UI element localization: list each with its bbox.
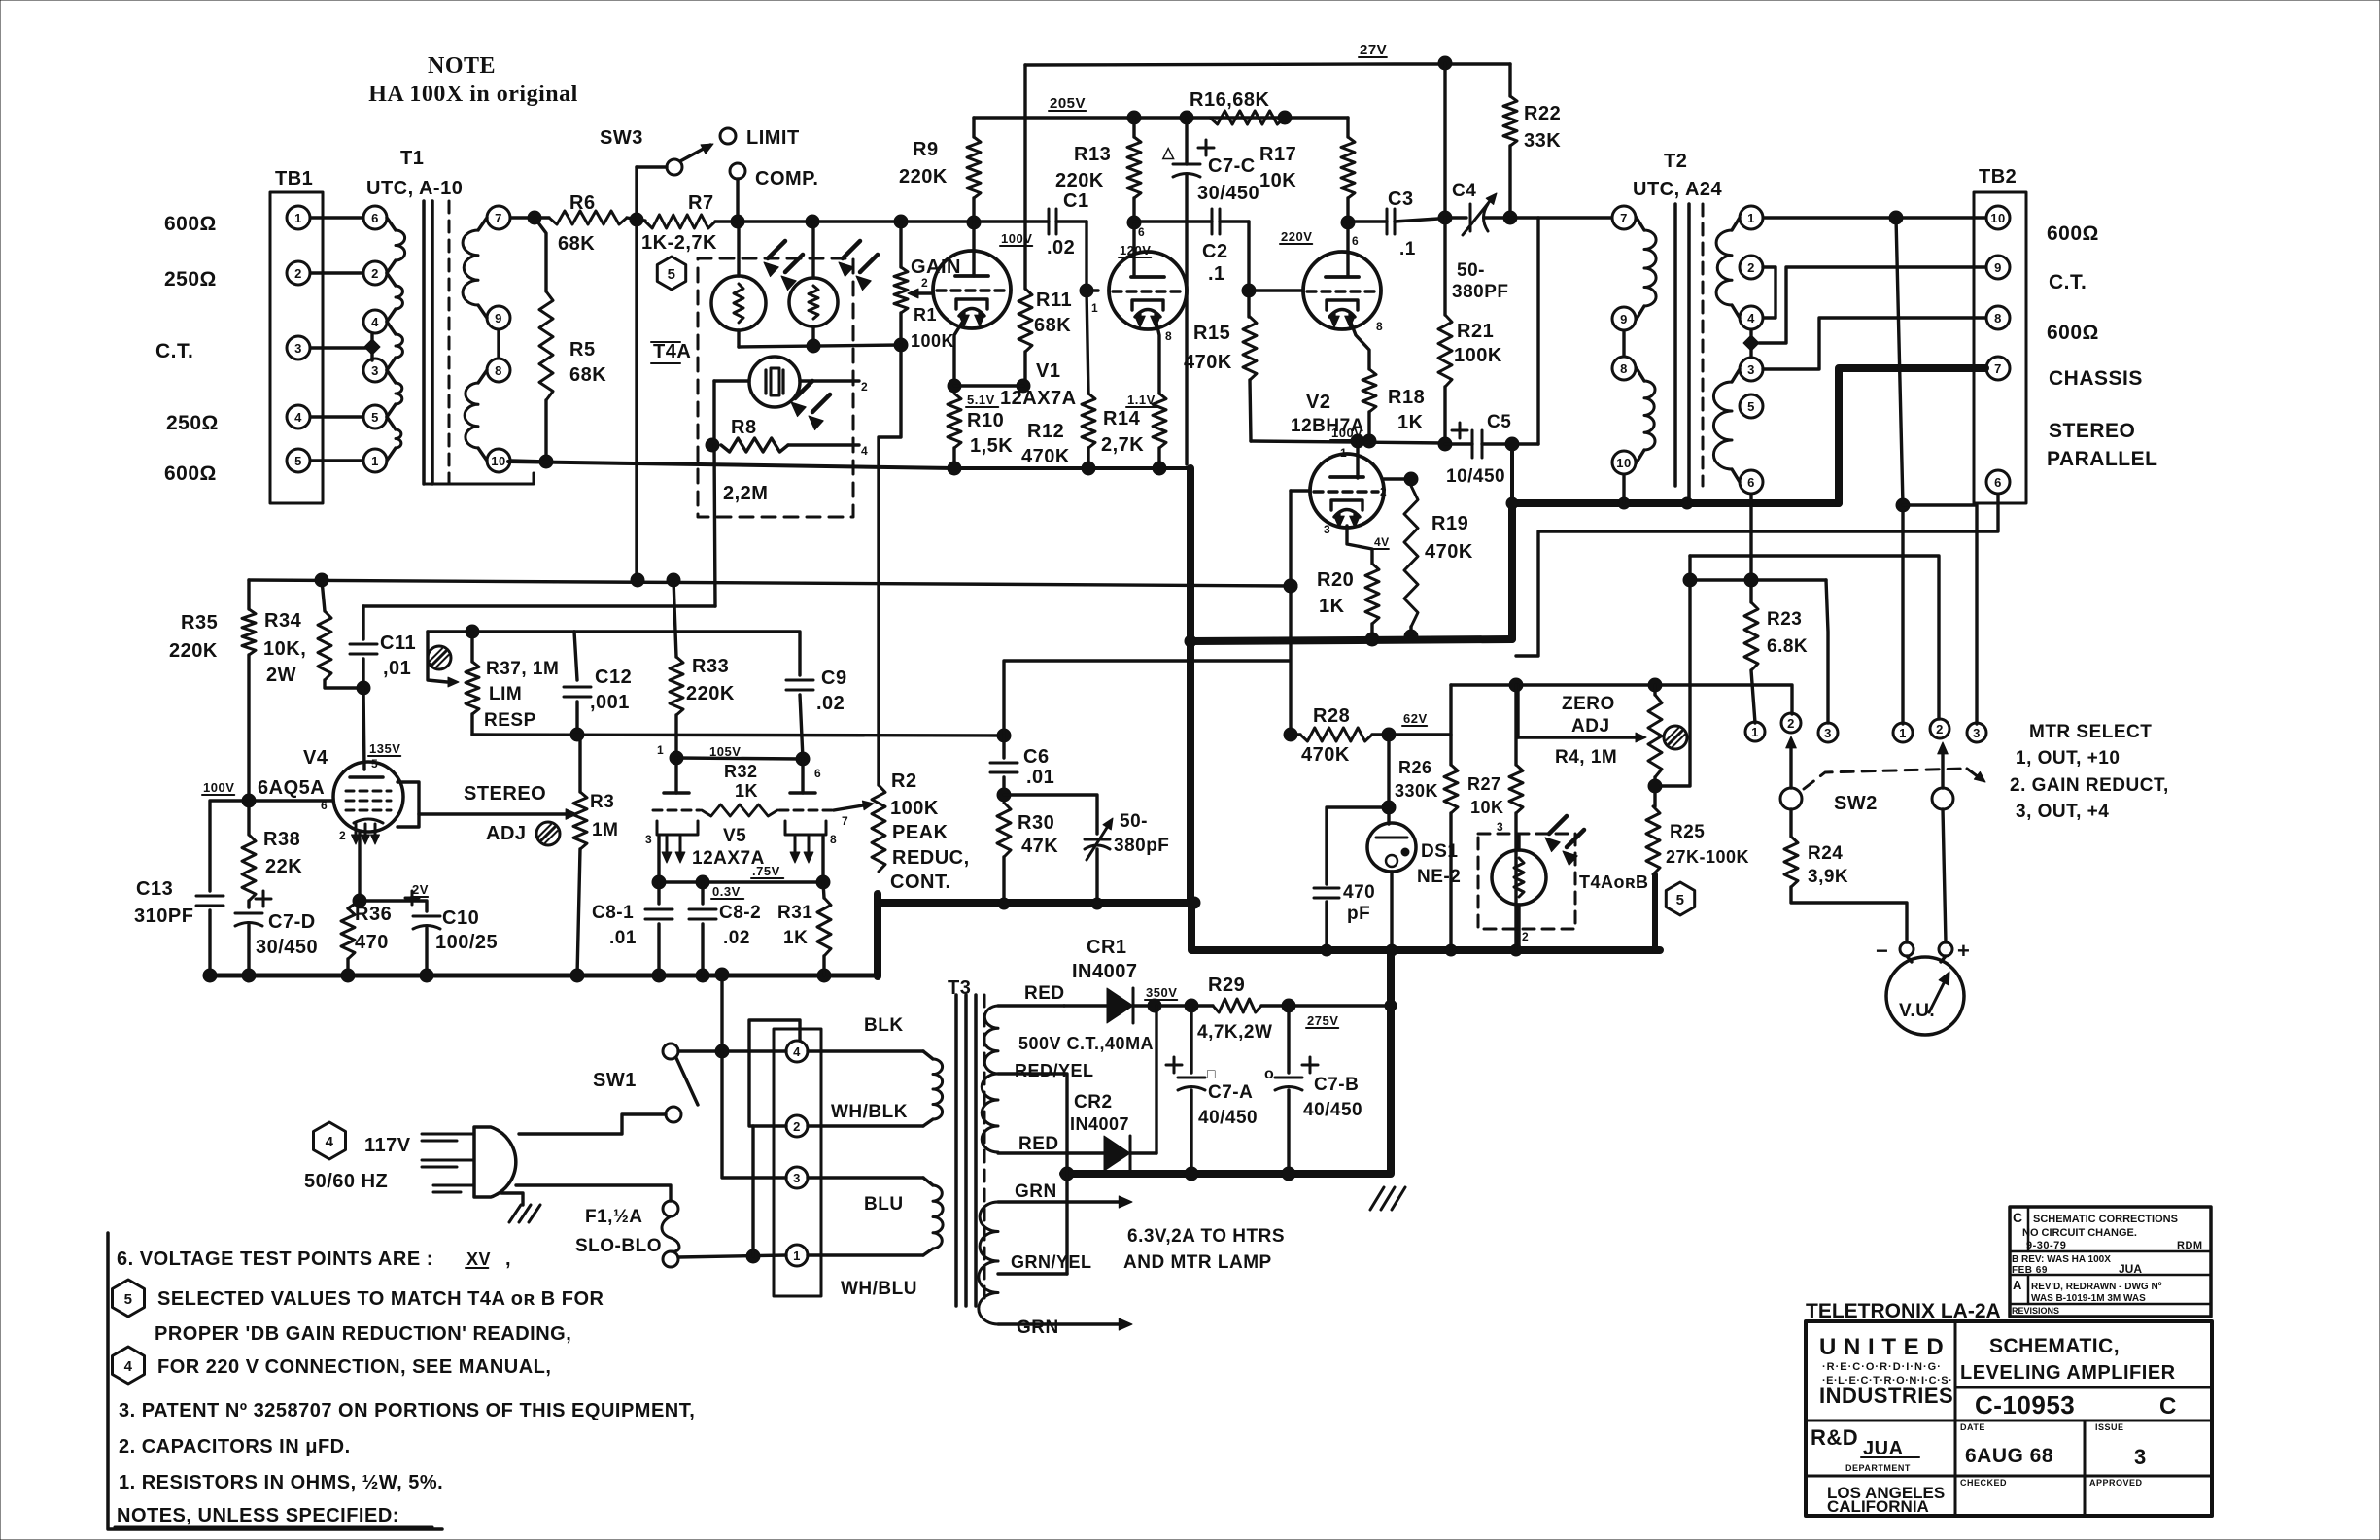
svg-text:135V: 135V bbox=[369, 741, 400, 756]
svg-text:V5: V5 bbox=[723, 826, 746, 846]
svg-text:50-: 50- bbox=[1457, 260, 1485, 281]
svg-text:ADJ: ADJ bbox=[1571, 716, 1610, 736]
svg-text:3. PATENT Nº 3258707 ON PORTI: 3. PATENT Nº 3258707 ON PORTIONS OF THIS… bbox=[119, 1400, 695, 1421]
wire 105V line bbox=[472, 735, 1004, 736]
capacitor C7-B 40/450 bbox=[1287, 1006, 1290, 1073]
variable capacitor 50-380pF bbox=[1004, 795, 1097, 834]
node R6/R7 junction bbox=[627, 218, 645, 221]
wire V5 to R2 wiper bbox=[834, 804, 869, 810]
note hex 4 bbox=[113, 1347, 145, 1384]
svg-text:470K: 470K bbox=[1425, 541, 1473, 563]
svg-text:C2: C2 bbox=[1202, 241, 1228, 262]
resistor R19 470K bbox=[1404, 486, 1418, 627]
cathode bus V5 bbox=[659, 837, 823, 882]
capacitor C8-2 .02 bbox=[701, 882, 704, 904]
chassis ground symbol bbox=[1370, 1187, 1384, 1210]
resistor R23 6.8K bbox=[1744, 573, 1758, 587]
svg-text:1: 1 bbox=[294, 211, 302, 225]
svg-text:2. GAIN REDUCT,: 2. GAIN REDUCT, bbox=[2010, 775, 2169, 796]
svg-text:40/450: 40/450 bbox=[1198, 1108, 1258, 1128]
lamp of T4A bbox=[749, 357, 800, 407]
wire TB3-2 jumper bbox=[749, 1020, 800, 1126]
svg-text:4: 4 bbox=[861, 444, 868, 458]
resistor R36 470 bbox=[341, 908, 355, 959]
svg-text:6. VOLTAGE TEST POINTS ARE :: 6. VOLTAGE TEST POINTS ARE : bbox=[117, 1249, 433, 1270]
svg-text:7: 7 bbox=[1620, 211, 1628, 225]
svg-text:C-10953: C-10953 bbox=[1975, 1390, 2075, 1420]
svg-text:600Ω: 600Ω bbox=[164, 462, 217, 485]
svg-text:10K: 10K bbox=[1470, 798, 1504, 817]
transformer T2 secondary windings bbox=[1732, 218, 1740, 230]
transformer T1 core bbox=[422, 201, 426, 484]
svg-text:1. RESISTORS IN OHMS, ½W, 5%.: 1. RESISTORS IN OHMS, ½W, 5%. bbox=[119, 1472, 443, 1493]
transformer T1 frame lead bbox=[424, 473, 534, 484]
svg-text:117V: 117V bbox=[364, 1135, 411, 1156]
svg-text:BLU: BLU bbox=[864, 1194, 904, 1215]
svg-text:3: 3 bbox=[1747, 362, 1755, 377]
chassis ground at plug bbox=[509, 1205, 521, 1222]
svg-text:5: 5 bbox=[668, 266, 676, 283]
svg-text:C1: C1 bbox=[1063, 190, 1089, 212]
svg-text:JUA: JUA bbox=[1863, 1438, 1904, 1459]
thick power ground bus bbox=[1063, 950, 1391, 1174]
svg-text:DEPARTMENT: DEPARTMENT bbox=[1845, 1463, 1911, 1473]
wire meter select 3 line bbox=[1903, 505, 1977, 724]
transformer T1 secondary terminals bbox=[487, 206, 510, 229]
svg-text:R9: R9 bbox=[913, 139, 939, 160]
svg-text:3: 3 bbox=[1324, 523, 1330, 536]
wire junction down left column bbox=[635, 220, 638, 580]
capacitor C6 .01 bbox=[1002, 736, 1005, 758]
revisions box bbox=[2010, 1207, 2211, 1317]
svg-text:BLK: BLK bbox=[864, 1015, 904, 1036]
switch SW3 pivot and arm bbox=[635, 167, 638, 220]
svg-text:C6: C6 bbox=[1023, 746, 1050, 768]
svg-text:SW1: SW1 bbox=[593, 1070, 637, 1091]
switch SW3 LIMIT contact bbox=[720, 128, 736, 144]
svg-text:C7-D: C7-D bbox=[268, 911, 316, 933]
wire R23 top to R25 chain bbox=[1690, 578, 1826, 581]
switch SW2 right common bbox=[1932, 788, 1953, 809]
capacitor C8-1 .01 bbox=[657, 882, 660, 904]
svg-text:1K: 1K bbox=[1397, 412, 1424, 433]
photocell LDR2 of T4A bbox=[811, 222, 814, 278]
svg-text:R15: R15 bbox=[1193, 323, 1230, 344]
svg-text:30/450: 30/450 bbox=[1197, 183, 1259, 204]
fuse F1 half amp slo-blo bbox=[663, 1201, 678, 1216]
wire GRN/YEL tap bbox=[998, 1272, 1067, 1275]
svg-text:□: □ bbox=[1207, 1066, 1216, 1081]
svg-text:7: 7 bbox=[1994, 361, 2002, 376]
transformer T3 primary windings bbox=[808, 1049, 923, 1052]
svg-text:9: 9 bbox=[1994, 260, 2002, 275]
svg-text:22K: 22K bbox=[265, 856, 302, 877]
svg-text:C8-2: C8-2 bbox=[719, 903, 761, 923]
photocell LDR1 of T4A bbox=[737, 222, 740, 276]
svg-text:CALIFORNIA: CALIFORNIA bbox=[1827, 1497, 1929, 1516]
svg-text:NO CIRCUIT CHANGE.: NO CIRCUIT CHANGE. bbox=[2022, 1227, 2137, 1239]
resistor R7 1K-2.7K bbox=[645, 215, 715, 228]
transformer T2 secondary terminals bbox=[1740, 206, 1763, 229]
svg-text:68K: 68K bbox=[558, 233, 595, 255]
svg-text:R38: R38 bbox=[263, 829, 300, 850]
svg-text:MTR SELECT: MTR SELECT bbox=[2029, 722, 2152, 742]
svg-text:△: △ bbox=[1161, 145, 1175, 161]
svg-text:GRN: GRN bbox=[1015, 1181, 1057, 1202]
cathode wire V1a bbox=[954, 323, 962, 386]
svg-text:10: 10 bbox=[1616, 456, 1631, 470]
wire COMP contact down to node bbox=[736, 179, 739, 222]
svg-text:FOR 220 V CONNECTION, SEE MANU: FOR 220 V CONNECTION, SEE MANUAL, bbox=[157, 1356, 551, 1378]
svg-text:RED/YEL: RED/YEL bbox=[1015, 1061, 1094, 1080]
diode CR2 bbox=[1104, 1136, 1130, 1171]
svg-text:TB2: TB2 bbox=[1979, 166, 2017, 188]
wire center tap to TB2-9 bbox=[1759, 267, 1985, 343]
svg-text:C7-A: C7-A bbox=[1208, 1082, 1253, 1103]
svg-text:REVISIONS: REVISIONS bbox=[2012, 1306, 2059, 1316]
svg-text:8: 8 bbox=[1994, 311, 2002, 325]
svg-text:6AQ5A: 6AQ5A bbox=[258, 777, 325, 799]
svg-text:SCHEMATIC,: SCHEMATIC, bbox=[1989, 1335, 2120, 1357]
svg-text:R14: R14 bbox=[1103, 408, 1141, 429]
triode V1a 12AX7A bbox=[933, 251, 1011, 328]
wire CR2 up to node bbox=[1155, 1006, 1157, 1153]
transformer T2 core bbox=[1673, 204, 1677, 486]
svg-text:470: 470 bbox=[355, 932, 389, 953]
svg-text:RED: RED bbox=[1018, 1134, 1059, 1154]
svg-text:2: 2 bbox=[1787, 716, 1795, 731]
svg-text:10K,: 10K, bbox=[263, 638, 306, 660]
resistor R27 10K bbox=[1514, 685, 1517, 765]
transformer T2 primary terminals bbox=[1612, 206, 1636, 229]
svg-text:100V: 100V bbox=[1001, 231, 1032, 246]
svg-text:C.T.: C.T. bbox=[155, 340, 193, 362]
wire plug ground bbox=[501, 1193, 523, 1205]
svg-text:RED: RED bbox=[1024, 983, 1065, 1004]
svg-text:5: 5 bbox=[294, 454, 302, 468]
resistor R30 47K bbox=[997, 803, 1011, 857]
svg-text:6: 6 bbox=[321, 799, 328, 812]
svg-text:R&D: R&D bbox=[1811, 1425, 1858, 1450]
svg-text:2W: 2W bbox=[266, 665, 296, 686]
svg-text:C7-C: C7-C bbox=[1208, 155, 1256, 177]
svg-text:2: 2 bbox=[294, 266, 302, 281]
svg-text:C5: C5 bbox=[1487, 412, 1511, 432]
svg-text:470K: 470K bbox=[1301, 744, 1350, 766]
svg-text:DATE: DATE bbox=[1960, 1422, 1985, 1432]
svg-text:2: 2 bbox=[1747, 260, 1755, 275]
wire T2-10 to bus bbox=[1622, 475, 1625, 503]
svg-text:3: 3 bbox=[1824, 726, 1832, 740]
switch SW2 dashed coupling bbox=[1804, 769, 1963, 789]
svg-text:1: 1 bbox=[1751, 725, 1759, 739]
svg-text:WH/BLU: WH/BLU bbox=[841, 1279, 917, 1299]
wire plug to SW1 bbox=[519, 1114, 666, 1134]
wire T1-9 to T1-8 bbox=[497, 330, 500, 358]
svg-text:DS1: DS1 bbox=[1421, 841, 1458, 862]
svg-text:LIMIT: LIMIT bbox=[746, 127, 800, 149]
resistor R32 1K inside V5 bbox=[702, 804, 777, 816]
svg-text:6: 6 bbox=[1352, 234, 1359, 248]
wire C1 to V1 grid bbox=[1087, 222, 1098, 291]
svg-text:600Ω: 600Ω bbox=[164, 213, 217, 235]
wire plate line V3 bbox=[1251, 441, 1445, 443]
svg-text:o: o bbox=[1264, 1066, 1274, 1082]
wire T2-1 to TB2-10 bbox=[1764, 216, 1985, 219]
zero adj network wire bbox=[1451, 685, 1792, 714]
svg-text:T4AᴏʀB: T4AᴏʀB bbox=[1579, 873, 1649, 892]
wire 27V rail bbox=[1025, 64, 1510, 65]
svg-text:STEREO: STEREO bbox=[2049, 420, 2135, 442]
resistor R26 330K bbox=[1389, 733, 1451, 736]
capacitor C5 10/450 bbox=[1452, 429, 1467, 432]
variable capacitor C4 50-380pF bbox=[1469, 204, 1472, 231]
svg-text:ZERO: ZERO bbox=[1562, 694, 1615, 714]
VU meter bbox=[1907, 956, 1912, 962]
svg-text:R13: R13 bbox=[1074, 144, 1111, 165]
svg-text:STEREO: STEREO bbox=[464, 783, 546, 804]
svg-text:50-: 50- bbox=[1120, 811, 1148, 832]
capacitor C11 .01 bbox=[362, 606, 364, 639]
svg-text:R17: R17 bbox=[1259, 144, 1296, 165]
svg-text:R37, 1M: R37, 1M bbox=[486, 659, 559, 679]
svg-text:R18: R18 bbox=[1388, 387, 1425, 408]
svg-text:.1: .1 bbox=[1399, 239, 1416, 259]
triode V3 12BH7A half bbox=[1310, 454, 1384, 528]
svg-text:1,5K: 1,5K bbox=[970, 435, 1013, 457]
svg-text:C9: C9 bbox=[821, 667, 847, 689]
capacitor C12 .001 bbox=[574, 632, 577, 680]
wire SW1 top to bus bbox=[720, 975, 723, 1051]
wire T1-10 bus bbox=[511, 461, 546, 462]
svg-text:R30: R30 bbox=[1018, 812, 1054, 834]
resistor R28 470K bbox=[1291, 733, 1300, 736]
svg-text:220K: 220K bbox=[686, 683, 735, 704]
resistor R25 27K-100K bbox=[1646, 806, 1660, 874]
svg-text:47K: 47K bbox=[1021, 836, 1058, 857]
resistor R24 3.9K bbox=[1789, 809, 1792, 837]
svg-text:R31: R31 bbox=[777, 903, 812, 923]
wire TB1-4 to T1-5 bbox=[311, 415, 362, 418]
resistor R33 220K bbox=[673, 580, 676, 657]
dots on thick bus R30 varcap bbox=[998, 898, 1010, 909]
svg-text:FEB 69: FEB 69 bbox=[2012, 1265, 2048, 1276]
wire C5 right up to C4 node bbox=[1510, 218, 1538, 444]
wire C4 node to T2 bbox=[1538, 216, 1611, 219]
svg-text:380PF: 380PF bbox=[1452, 282, 1508, 302]
capacitor C7-C 30/450 bbox=[1198, 147, 1214, 150]
wire 205V rail bbox=[974, 116, 1348, 119]
svg-text:R11: R11 bbox=[1036, 290, 1072, 311]
svg-text:250Ω: 250Ω bbox=[166, 412, 219, 434]
svg-text:6.8K: 6.8K bbox=[1767, 636, 1808, 657]
svg-text:.75V: .75V bbox=[752, 864, 780, 878]
svg-text:600Ω: 600Ω bbox=[2047, 322, 2099, 344]
svg-text:205V: 205V bbox=[1050, 95, 1086, 112]
note hex 5 bbox=[113, 1280, 145, 1317]
svg-text:1K: 1K bbox=[735, 781, 758, 801]
svg-text:COMP.: COMP. bbox=[755, 168, 818, 189]
capacitor C7-D 30/450 bbox=[256, 898, 271, 901]
meter minus terminal bbox=[1900, 942, 1914, 956]
svg-text:SW3: SW3 bbox=[600, 127, 643, 149]
capacitor C7-A 40/450 bbox=[1190, 1006, 1192, 1073]
svg-text:R1: R1 bbox=[914, 305, 937, 325]
resistor R10 1.5K bbox=[948, 394, 961, 448]
wire R7 to C1 bbox=[715, 220, 974, 222]
svg-text:50/60 HZ: 50/60 HZ bbox=[304, 1171, 388, 1192]
svg-text:WH/BLK: WH/BLK bbox=[831, 1102, 908, 1122]
resistor R13 220K bbox=[1132, 118, 1135, 137]
svg-text:R7: R7 bbox=[688, 192, 714, 214]
svg-text:6: 6 bbox=[814, 767, 821, 780]
svg-text:2: 2 bbox=[921, 276, 928, 290]
svg-text:T1: T1 bbox=[400, 148, 424, 169]
svg-text:R24: R24 bbox=[1808, 843, 1843, 864]
capacitor C2 .1 bbox=[1211, 209, 1214, 234]
svg-text:CHASSIS: CHASSIS bbox=[2049, 367, 2143, 390]
svg-text:,01: ,01 bbox=[383, 658, 411, 679]
resistor R11 68K bbox=[1018, 289, 1032, 352]
svg-text:,001: ,001 bbox=[590, 692, 630, 713]
svg-text:62V: 62V bbox=[1403, 711, 1428, 726]
hex note 5 for R25 bbox=[1666, 882, 1694, 915]
wire TB1-1 to T1-6 bbox=[311, 216, 362, 219]
svg-text:1: 1 bbox=[657, 743, 664, 757]
svg-text:REDUC,: REDUC, bbox=[892, 847, 970, 869]
wire T2-2 to T2-4 jumper bbox=[1763, 267, 1776, 318]
svg-text:C: C bbox=[2159, 1393, 2177, 1420]
svg-text:R34: R34 bbox=[264, 610, 302, 632]
svg-text:REV'D, REDRAWN - DWG Nº: REV'D, REDRAWN - DWG Nº bbox=[2031, 1282, 2162, 1292]
svg-text:T4A: T4A bbox=[653, 341, 691, 362]
svg-text:6AUG 68: 6AUG 68 bbox=[1965, 1445, 2053, 1467]
svg-text:R16,68K: R16,68K bbox=[1190, 89, 1269, 111]
svg-text:CHECKED: CHECKED bbox=[1960, 1478, 2007, 1488]
svg-text:PARALLEL: PARALLEL bbox=[2047, 448, 2157, 470]
wire TB3-3 jumper bbox=[722, 1051, 786, 1178]
svg-text:C13: C13 bbox=[136, 878, 173, 900]
svg-text:UTC, A-10: UTC, A-10 bbox=[366, 178, 463, 199]
screwdriver adjust for R3 bbox=[536, 822, 560, 845]
capacitor C10 100/25 bbox=[360, 901, 427, 911]
resistor R12 470K bbox=[1087, 291, 1088, 394]
title block main box bbox=[1806, 1321, 2212, 1516]
svg-text:AND MTR LAMP: AND MTR LAMP bbox=[1123, 1252, 1272, 1273]
svg-text:8: 8 bbox=[1376, 320, 1383, 333]
svg-text:470K: 470K bbox=[1184, 352, 1232, 373]
wire GRN bottom with arrow bbox=[998, 1322, 1125, 1325]
wire TB1-2 to T1-2 bbox=[311, 271, 362, 274]
svg-text:4: 4 bbox=[124, 1358, 133, 1375]
svg-text:+: + bbox=[1957, 939, 1970, 963]
resistor R22 33K bbox=[1508, 64, 1511, 96]
svg-text:220K: 220K bbox=[1055, 170, 1104, 191]
svg-text:R8: R8 bbox=[731, 417, 757, 438]
cathode wire V3 bbox=[1347, 526, 1372, 564]
svg-text:C4: C4 bbox=[1452, 181, 1476, 201]
svg-text:R22: R22 bbox=[1524, 103, 1561, 124]
photocell T4A or B dashed box bbox=[1478, 834, 1575, 929]
neon lamp DS1 NE-2 bbox=[1387, 735, 1390, 824]
svg-text:6: 6 bbox=[371, 211, 379, 225]
svg-text:250Ω: 250Ω bbox=[164, 268, 217, 291]
wire V3 grid column down bbox=[1289, 491, 1292, 735]
wire plug to fuse bbox=[516, 1185, 671, 1201]
svg-text:NOTE: NOTE bbox=[428, 53, 496, 79]
svg-text:380pF: 380pF bbox=[1114, 836, 1169, 856]
resistor R17 10K bbox=[1346, 118, 1349, 137]
svg-text:1K: 1K bbox=[783, 928, 808, 948]
cathode bus V1 V2 bbox=[508, 462, 1190, 468]
wire V3 grid bbox=[1291, 489, 1310, 492]
svg-text:100V: 100V bbox=[1331, 426, 1362, 440]
resistor R18 1K bbox=[1362, 369, 1376, 412]
svg-text:C7-B: C7-B bbox=[1314, 1075, 1359, 1095]
wire V5 plates bbox=[676, 758, 803, 759]
svg-text:1, OUT, +10: 1, OUT, +10 bbox=[2016, 748, 2120, 769]
resistor R5 68K bbox=[539, 291, 553, 400]
svg-text:pF: pF bbox=[1347, 904, 1370, 924]
wire SW2 right contact 2 bbox=[1690, 556, 1939, 719]
potentiometer R37 1M LIM RESP bbox=[470, 632, 473, 662]
svg-text:1K: 1K bbox=[1319, 596, 1345, 617]
cathode wire V2 bbox=[1351, 323, 1369, 369]
svg-text:LEVELING AMPLIFIER: LEVELING AMPLIFIER bbox=[1960, 1362, 2176, 1384]
svg-text:1: 1 bbox=[793, 1249, 801, 1263]
svg-text:68K: 68K bbox=[1034, 315, 1071, 336]
svg-text:.02: .02 bbox=[816, 693, 845, 714]
svg-text:220K: 220K bbox=[899, 166, 948, 188]
svg-text:RESP: RESP bbox=[484, 710, 536, 731]
svg-text:220K: 220K bbox=[169, 640, 218, 662]
svg-text:6.3V,2A TO HTRS: 6.3V,2A TO HTRS bbox=[1127, 1226, 1285, 1247]
svg-text:R26: R26 bbox=[1398, 758, 1432, 777]
svg-text:5: 5 bbox=[1676, 892, 1685, 908]
wire C11 to V4 plate bbox=[363, 688, 364, 770]
wiper of R4 bbox=[1516, 685, 1519, 737]
svg-text:C8-1: C8-1 bbox=[592, 903, 634, 923]
svg-text:R28: R28 bbox=[1313, 705, 1350, 727]
wire LDR bottoms bus bbox=[737, 330, 740, 347]
svg-text:−: − bbox=[1876, 939, 1888, 963]
potentiometer R3 1M stereo adj bbox=[578, 735, 581, 792]
svg-text:2. CAPACITORS IN μFD.: 2. CAPACITORS IN μFD. bbox=[119, 1436, 351, 1457]
svg-text:470K: 470K bbox=[1021, 446, 1070, 467]
svg-text:SLO-BLO: SLO-BLO bbox=[575, 1236, 662, 1256]
wire C6 column bbox=[1005, 659, 1289, 662]
svg-text:350V: 350V bbox=[1146, 985, 1177, 1000]
svg-text:330K: 330K bbox=[1395, 781, 1438, 801]
svg-text:4: 4 bbox=[1747, 311, 1755, 325]
svg-text:ISSUE: ISSUE bbox=[2095, 1422, 2124, 1432]
wire contact3 left up bbox=[1826, 580, 1828, 723]
light arrows at LDR1 bbox=[768, 241, 785, 258]
svg-text:2: 2 bbox=[1936, 722, 1944, 736]
meter plus terminal bbox=[1939, 942, 1952, 956]
svg-text:310PF: 310PF bbox=[134, 906, 193, 927]
wire SW1 to TB3-4 bbox=[678, 1049, 786, 1052]
svg-text:C10: C10 bbox=[442, 907, 479, 929]
svg-text:ADJ: ADJ bbox=[486, 823, 527, 844]
svg-text:4: 4 bbox=[326, 1134, 334, 1150]
svg-text:C12: C12 bbox=[595, 667, 632, 688]
svg-text:3, OUT, +4: 3, OUT, +4 bbox=[2016, 802, 2109, 822]
switch SW3 COMP contact bbox=[730, 163, 745, 179]
svg-text:5: 5 bbox=[371, 410, 379, 425]
svg-text:6: 6 bbox=[1747, 475, 1755, 490]
cathode wire V4 bbox=[358, 832, 361, 901]
